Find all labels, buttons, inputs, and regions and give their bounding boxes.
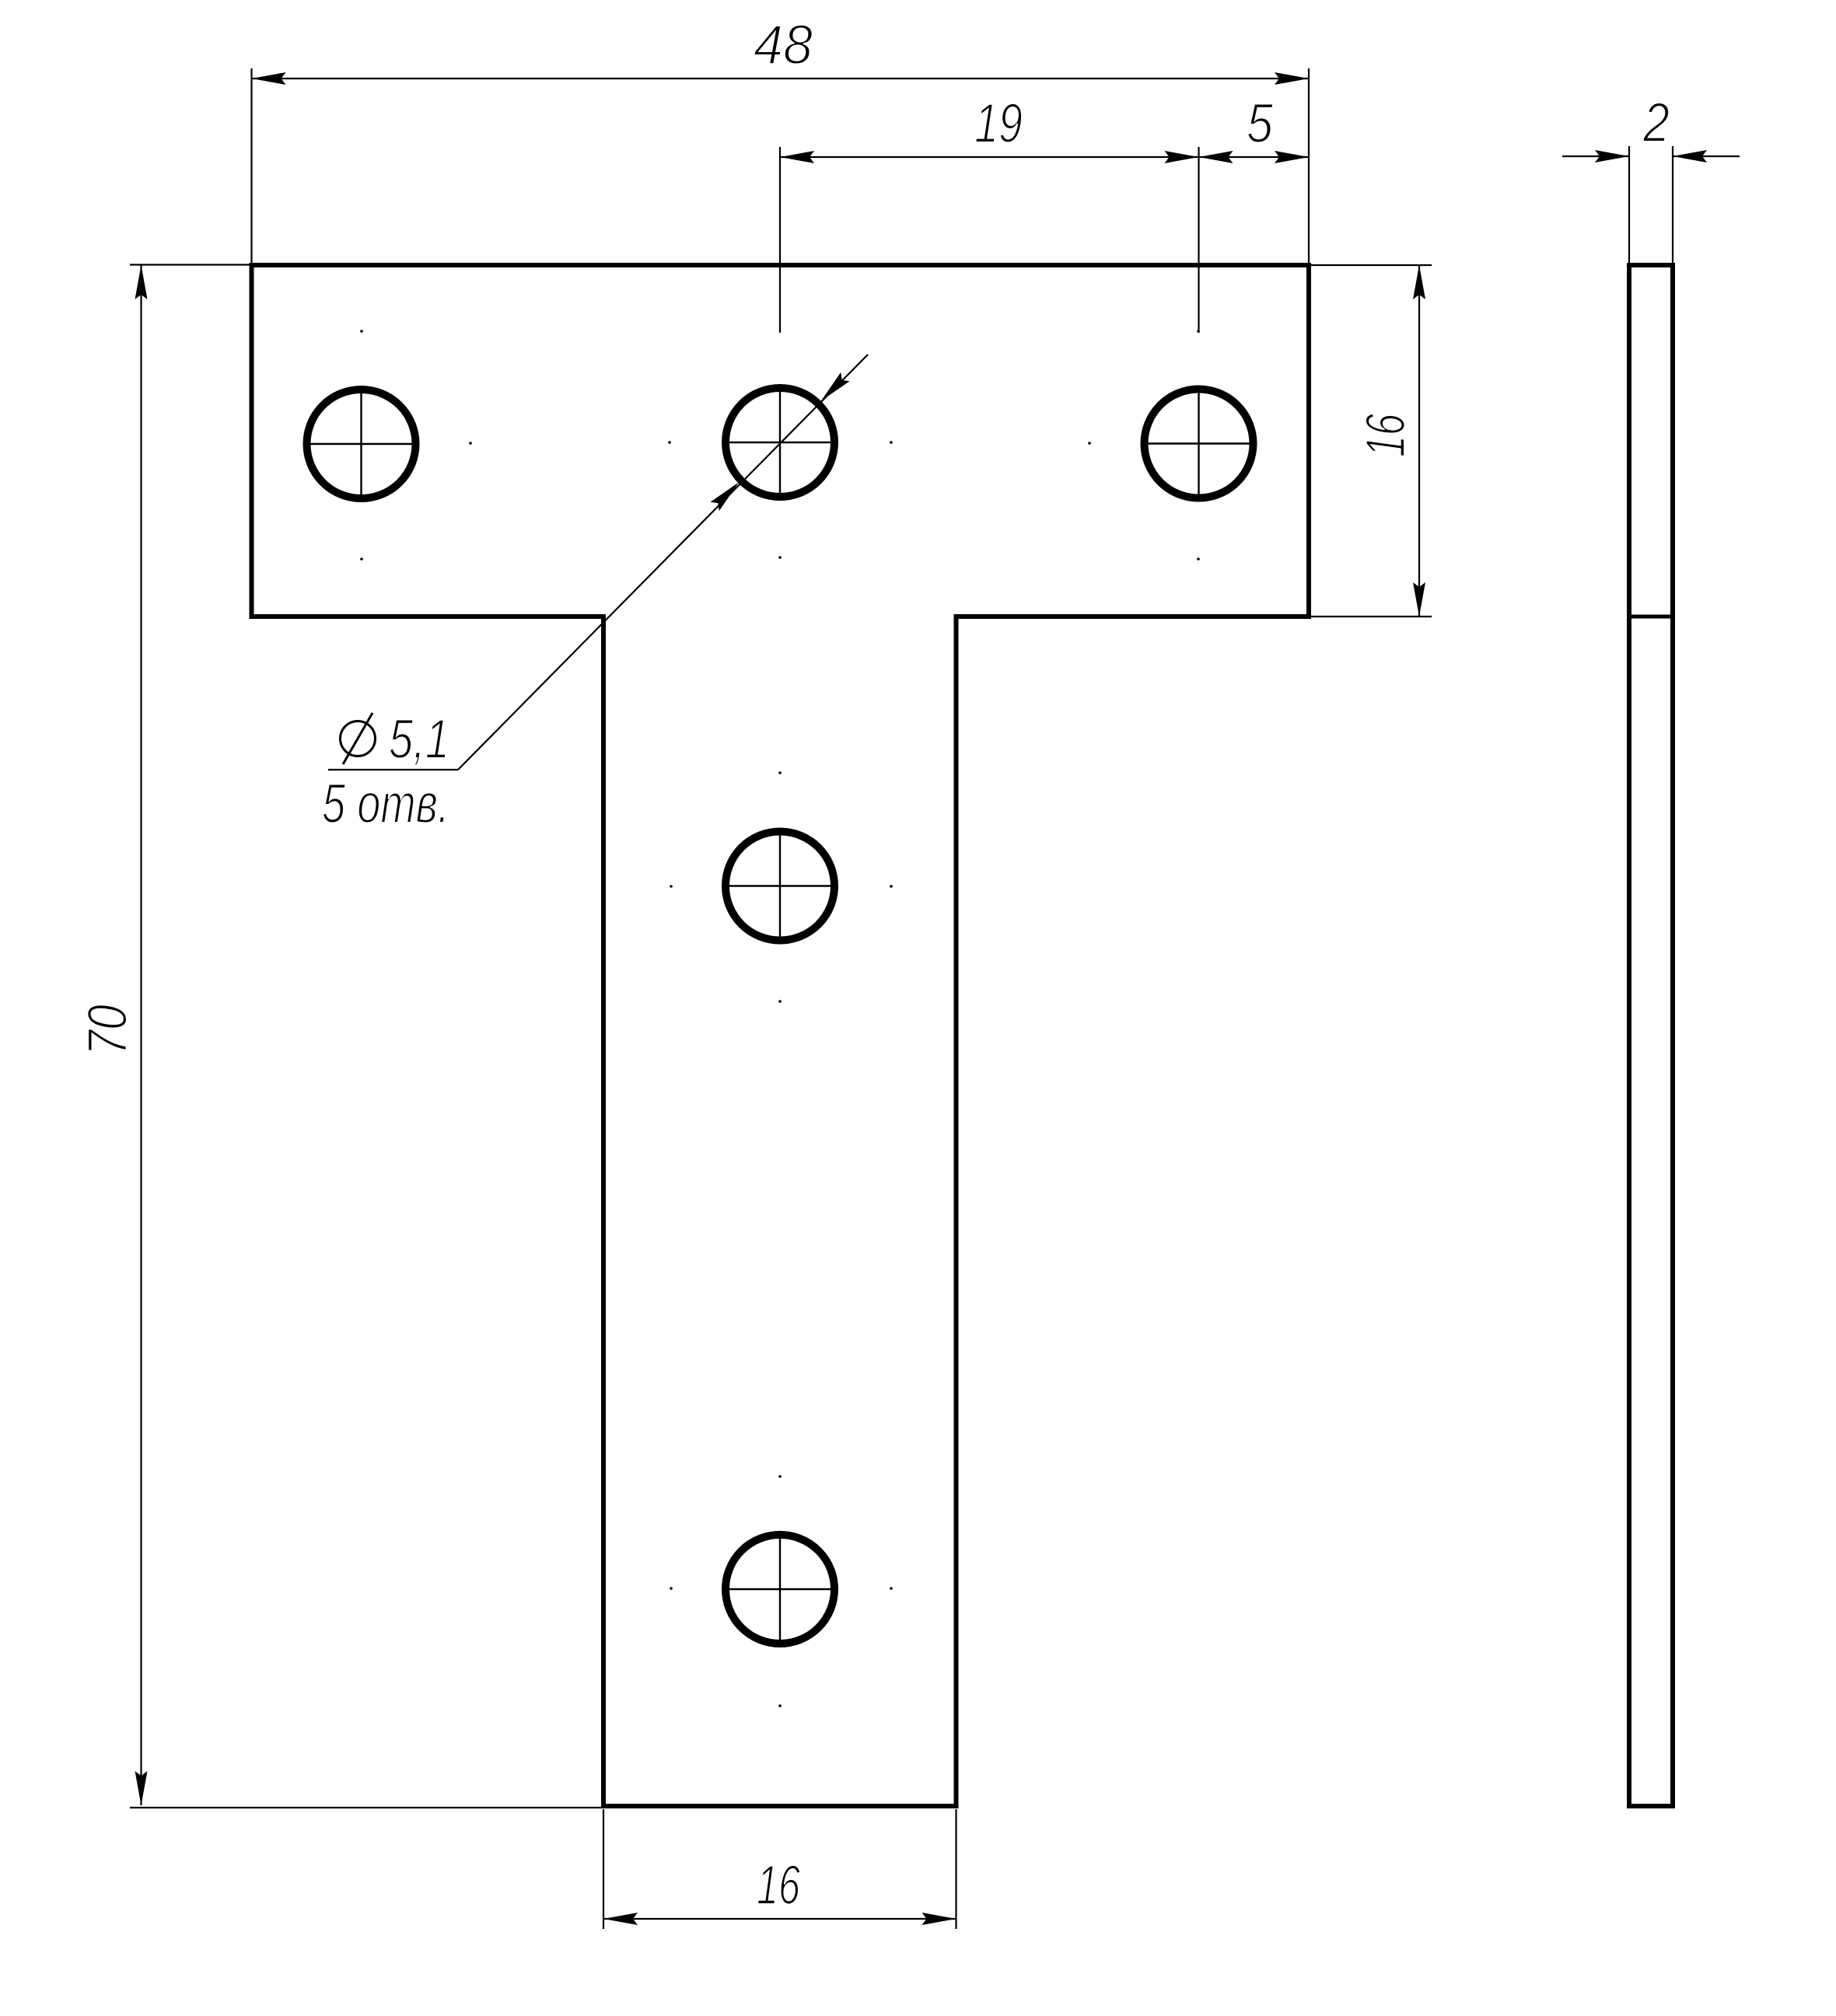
- center mark dots: [360, 330, 1200, 1707]
- svg-text:5,1: 5,1: [389, 709, 449, 770]
- svg-text:5: 5: [1247, 93, 1273, 155]
- dimension 48 (top width): [252, 68, 1310, 263]
- svg-text:16: 16: [1355, 414, 1417, 457]
- leader line to center hole: [458, 355, 868, 770]
- T-plate outline (front view): [252, 265, 1310, 1806]
- svg-text:19: 19: [974, 93, 1023, 155]
- side view outline: [1629, 265, 1673, 1806]
- dimension 19 (center to right hole): [780, 147, 1199, 333]
- diameter symbol: [341, 721, 376, 756]
- hole stem-middle: [722, 828, 838, 945]
- hole top-center: [722, 384, 838, 501]
- svg-text:5 отв.: 5 отв.: [322, 774, 449, 835]
- leader underline: [328, 769, 458, 770]
- hole top-left: [303, 386, 420, 502]
- dimension 2 (thickness, side view): [1562, 146, 1740, 263]
- leader arrow upper-right: [817, 372, 849, 405]
- hole stem-bottom: [722, 1531, 838, 1647]
- svg-text:48: 48: [754, 15, 813, 76]
- dimension 16 (stem width, bottom): [603, 1809, 956, 1929]
- dimension 16 (top bar height, right side): [1311, 265, 1432, 617]
- svg-text:2: 2: [1642, 93, 1670, 154]
- svg-text:70: 70: [78, 1005, 139, 1056]
- svg-text:16: 16: [757, 1855, 800, 1916]
- side view edge line of top bar: [1629, 615, 1673, 619]
- hole top-right: [1141, 386, 1257, 502]
- dimension 70 (overall height): [130, 265, 601, 1808]
- dimension 5 (right hole to edge): [1199, 156, 1310, 158]
- leader arrow lower-left: [710, 478, 743, 511]
